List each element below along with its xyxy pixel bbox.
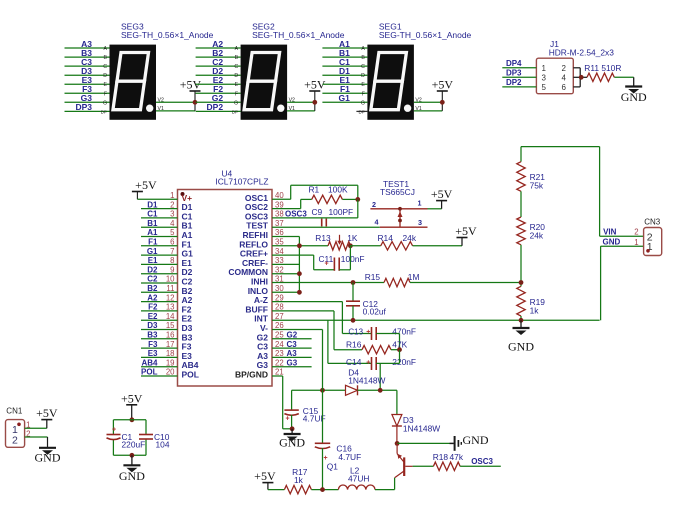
wire SEG3 pin C net C3 — [65, 57, 110, 70]
wire BUFF pin28 to R16 — [272, 311, 362, 350]
svg-text:OSC3: OSC3 — [285, 210, 307, 219]
svg-text:D: D — [361, 73, 365, 79]
svg-text:SEG-TH_0.56×1_Anode: SEG-TH_0.56×1_Anode — [252, 30, 345, 40]
diode D4 1N4148W — [346, 368, 386, 396]
svg-text:V2: V2 — [415, 97, 421, 103]
svg-text:ICL7107CPLZ: ICL7107CPLZ — [215, 177, 268, 187]
wire CN1 pin1 to +5V — [25, 420, 47, 429]
svg-text:R15: R15 — [365, 272, 381, 282]
svg-text:37: 37 — [275, 219, 284, 228]
resistor R11 510R — [584, 63, 621, 82]
svg-text:+5V: +5V — [36, 406, 58, 420]
wire U4 pin 24 net C3 — [272, 340, 312, 349]
svg-text:E3: E3 — [148, 349, 158, 358]
svg-text:36: 36 — [275, 228, 284, 237]
capacitor C9 100PF — [312, 207, 354, 227]
junction R19 bottom — [519, 318, 524, 323]
wire R19 bottom — [520, 316, 522, 320]
wire SEG2 pin D net D2 — [196, 66, 241, 79]
ground GND rotated at D3 — [450, 433, 489, 451]
wire C14 right — [376, 350, 399, 391]
resistor R17 1k — [284, 467, 311, 494]
wire SEG3 pin E net E3 — [65, 75, 110, 88]
wire COMMON pin32 — [272, 273, 299, 275]
svg-text:40: 40 — [275, 191, 284, 200]
wire U4 pin 20 net POL — [141, 368, 178, 377]
svg-text:+5V: +5V — [135, 178, 157, 192]
svg-text:GND: GND — [621, 90, 647, 104]
svg-text:TS665CJ: TS665CJ — [380, 187, 415, 197]
svg-text:G1: G1 — [147, 247, 158, 256]
capacitor C16 4.7UF — [315, 443, 361, 489]
svg-text:B: B — [104, 55, 108, 61]
junction bus COMMON — [297, 271, 302, 276]
ground GND at C1 — [119, 455, 145, 483]
capacitor C11 100nF — [319, 254, 365, 271]
svg-text:16: 16 — [166, 331, 175, 340]
svg-text:HDR-M-2.54_2x3: HDR-M-2.54_2x3 — [549, 47, 615, 57]
capacitor C15 4.7UF — [284, 390, 325, 429]
resistor R1 100K — [309, 185, 348, 204]
svg-text:E1: E1 — [148, 256, 158, 265]
svg-text:27: 27 — [275, 312, 284, 321]
ground GND at R19 — [508, 320, 534, 353]
svg-text:47UH: 47UH — [348, 474, 369, 484]
svg-text:V1: V1 — [158, 106, 164, 112]
junction bus INLO — [297, 290, 302, 295]
wire +5V to U4 pin1 — [137, 198, 177, 200]
wire SEG2 pin G net G2 — [196, 93, 241, 106]
svg-text:R16: R16 — [346, 340, 362, 350]
wire to D3 — [396, 390, 398, 414]
wire BP/GND pin21 down — [272, 376, 292, 429]
junction R1 right — [355, 197, 360, 202]
svg-text:+: + — [324, 455, 328, 462]
svg-text:28: 28 — [275, 303, 284, 312]
resistor R19 1k — [517, 286, 546, 316]
junction J1 pin4 — [579, 75, 584, 80]
svg-text:G: G — [234, 100, 238, 106]
svg-text:18: 18 — [166, 349, 175, 358]
wire U4 pin 6 net F1 — [141, 238, 178, 247]
svg-text:9: 9 — [170, 265, 174, 274]
svg-text:4: 4 — [562, 73, 567, 82]
wire U4 pin 7 net G1 — [141, 247, 178, 256]
svg-text:AB4: AB4 — [141, 358, 158, 367]
svg-text:C: C — [103, 64, 107, 70]
wire SEG2 pin C net C2 — [196, 57, 241, 70]
connector CN1 — [6, 407, 31, 448]
svg-text:C13: C13 — [348, 328, 363, 337]
svg-text:19: 19 — [166, 358, 175, 367]
wire INT pin27 long row — [272, 319, 600, 321]
svg-text:220uF: 220uF — [122, 440, 146, 450]
svg-text:B: B — [361, 55, 365, 61]
svg-text:DP3: DP3 — [75, 102, 92, 112]
svg-text:17: 17 — [166, 340, 175, 349]
svg-text:3: 3 — [418, 218, 422, 227]
svg-text:+: + — [366, 329, 370, 336]
svg-text:100nF: 100nF — [341, 254, 365, 264]
capacitor C14 220nF — [346, 357, 416, 370]
wire VIN row — [600, 228, 644, 237]
wire A-Z pin29 to C13 — [272, 302, 372, 334]
ground GND at C15 — [279, 429, 305, 450]
svg-text:D1: D1 — [147, 200, 158, 209]
power +5V at C1 — [121, 391, 143, 420]
svg-text:D3: D3 — [147, 321, 158, 330]
wire CREF+ pin34 to C11 — [272, 255, 334, 270]
svg-text:POL: POL — [182, 370, 199, 380]
U4 right pin names and numbers — [228, 191, 284, 380]
svg-text:26: 26 — [275, 321, 284, 330]
svg-text:GND: GND — [508, 340, 534, 354]
svg-text:4: 4 — [375, 218, 379, 227]
wire C13 right — [376, 334, 399, 350]
wire L2 to emitter — [375, 489, 395, 491]
wire C11 right to R13 junction — [339, 246, 350, 270]
wire OSC3 pin38 — [272, 199, 358, 218]
svg-text:C3: C3 — [287, 340, 298, 349]
svg-text:F2: F2 — [148, 303, 158, 312]
svg-text:4.7UF: 4.7UF — [338, 452, 361, 462]
transistor Q1 — [327, 443, 413, 477]
svg-text:+: + — [325, 261, 329, 268]
svg-text:A: A — [235, 46, 239, 52]
resistor R20 24k — [517, 217, 546, 245]
svg-text:1: 1 — [170, 191, 174, 200]
wire SEG2 pin B net B2 — [196, 48, 241, 61]
wire INLO pin30 — [272, 291, 299, 293]
junction at SEG2 V2 — [312, 100, 317, 105]
junction R16/C13/C14 — [397, 347, 402, 352]
svg-text:G: G — [103, 100, 107, 106]
svg-text:6: 6 — [170, 238, 174, 247]
svg-text:GND: GND — [603, 238, 621, 247]
wire GND row to CN3 — [601, 238, 644, 321]
wire J1 net DP4 — [502, 59, 536, 68]
wire R16 right — [391, 349, 400, 351]
svg-text:POL: POL — [141, 368, 158, 377]
wire U4 pin 2 net D1 — [141, 200, 178, 209]
svg-text:E2: E2 — [148, 312, 158, 321]
wire REFHI pin36 — [272, 236, 299, 238]
svg-text:24: 24 — [275, 340, 284, 349]
wire U4 pin 13 net F2 — [141, 303, 178, 312]
wire SEG1 V2/V1 to +5V — [414, 91, 442, 112]
wire SEG1 pin DP — [356, 109, 367, 114]
wire U4 pin 11 net B2 — [141, 284, 178, 293]
svg-text:5: 5 — [542, 83, 547, 92]
svg-text:7: 7 — [170, 247, 174, 256]
U4 left pin names and numbers — [166, 191, 199, 380]
wire D4 right — [358, 389, 397, 391]
svg-text:14: 14 — [166, 312, 175, 321]
svg-text:+5V: +5V — [455, 224, 477, 238]
wire U4 pin 4 net B1 — [141, 219, 178, 228]
svg-text:100PF: 100PF — [329, 207, 354, 217]
svg-text:R18: R18 — [433, 452, 449, 462]
svg-text:20: 20 — [166, 368, 175, 377]
wire INHI pin31 / R15 row — [272, 282, 384, 284]
svg-text:CN3: CN3 — [644, 218, 661, 227]
svg-text:A3: A3 — [287, 349, 298, 358]
svg-text:1k: 1k — [294, 475, 304, 485]
wire SEG2 V2/V1 to +5V — [287, 91, 315, 112]
svg-text:1: 1 — [542, 64, 547, 73]
svg-text:1k: 1k — [530, 306, 540, 316]
power +5V at SEG3 — [180, 78, 202, 92]
svg-text:G2: G2 — [287, 331, 298, 340]
svg-text:E: E — [361, 82, 365, 88]
svg-text:11: 11 — [166, 284, 174, 293]
switch TEST1 TS665CJ — [370, 179, 427, 227]
wire R21 to R20 — [520, 191, 522, 217]
svg-text:DP: DP — [359, 109, 365, 114]
svg-text:C2: C2 — [147, 275, 158, 284]
junction C15 bottom — [290, 426, 295, 431]
svg-text:F1: F1 — [148, 238, 158, 247]
junction C12 bottom — [351, 318, 356, 323]
svg-text:B2: B2 — [147, 284, 158, 293]
svg-text:24k: 24k — [403, 233, 417, 243]
svg-text:Q1: Q1 — [327, 462, 339, 472]
wire base to R18 — [413, 465, 434, 467]
svg-text:VIN: VIN — [603, 228, 617, 237]
svg-text:GND: GND — [463, 433, 489, 447]
svg-text:38: 38 — [275, 210, 284, 219]
wire U4 pin 17 net F3 — [141, 340, 178, 349]
wire C14 row from INT — [328, 320, 372, 363]
junction R20/R19/R15 — [519, 280, 524, 285]
svg-text:5: 5 — [170, 228, 175, 237]
svg-text:DP3: DP3 — [506, 68, 522, 77]
wire REFLO pin35 to R13 — [272, 245, 328, 247]
svg-text:DP2: DP2 — [506, 78, 522, 87]
svg-text:2: 2 — [634, 228, 638, 237]
svg-text:C9: C9 — [312, 207, 323, 217]
svg-text:A1: A1 — [147, 228, 158, 237]
svg-text:F: F — [362, 91, 365, 97]
junction bus REFLO — [297, 243, 302, 248]
wire emitter down — [394, 478, 396, 490]
svg-text:75k: 75k — [530, 181, 544, 191]
svg-text:470nF: 470nF — [392, 327, 416, 337]
wire U4 pin 25 net G2 — [272, 331, 312, 340]
7-segment display SEG2 — [241, 22, 345, 120]
svg-text:1: 1 — [418, 199, 422, 208]
wire TEST pin37 to TEST1 pin4 — [272, 226, 380, 228]
resistor R21 75k — [517, 162, 546, 192]
svg-text:2: 2 — [170, 200, 174, 209]
wire SEG1 pin G net G1 — [322, 93, 367, 106]
wire U4 pin 18 net E3 — [141, 349, 178, 358]
svg-text:24k: 24k — [530, 231, 544, 241]
wire U4 pin 8 net E1 — [141, 256, 178, 265]
wire SEG1 pin B net B1 — [322, 48, 367, 61]
wire U4 pin 19 net AB4 — [141, 358, 178, 367]
wire SEG3 pin D net D3 — [65, 66, 110, 79]
svg-text:+: + — [112, 427, 116, 434]
wire J1 net DP2 — [502, 78, 536, 87]
resistor R13 1K — [315, 233, 358, 250]
wire R11 to GND — [614, 76, 633, 78]
svg-text:R1: R1 — [309, 185, 320, 195]
svg-text:29: 29 — [275, 293, 284, 302]
wire SEG1 pin A net A1 — [322, 39, 367, 52]
wire SEG3 pin DP net DP3 — [65, 102, 110, 114]
svg-text:B: B — [235, 55, 239, 61]
svg-text:3: 3 — [542, 73, 547, 82]
wire R1 right to loop — [342, 198, 357, 200]
wire U4 pin 14 net E2 — [141, 312, 178, 321]
svg-text:OSC3: OSC3 — [471, 457, 493, 466]
svg-text:39: 39 — [275, 200, 284, 209]
svg-text:SEG-TH_0.56×1_Anode: SEG-TH_0.56×1_Anode — [379, 30, 472, 40]
svg-text:22: 22 — [275, 358, 284, 367]
wire collector node to GND — [397, 442, 449, 444]
svg-text:E: E — [104, 82, 108, 88]
svg-text:104: 104 — [156, 440, 170, 450]
resistor R16 47K — [346, 340, 408, 354]
svg-text:34: 34 — [275, 247, 284, 256]
svg-text:47k: 47k — [450, 452, 464, 462]
svg-text:G1: G1 — [339, 93, 351, 103]
svg-text:V1: V1 — [289, 106, 295, 112]
svg-text:GND: GND — [279, 436, 305, 450]
junction C12 top — [351, 280, 356, 285]
svg-text:0.02uf: 0.02uf — [363, 307, 387, 317]
junction C1 bottom — [130, 453, 135, 458]
svg-text:12: 12 — [166, 293, 175, 302]
svg-text:G: G — [361, 100, 365, 106]
junction at SEG1 V2 — [440, 100, 445, 105]
wire SEG2 pin F net F2 — [196, 84, 241, 97]
svg-text:G3: G3 — [287, 358, 298, 367]
wire CREF- pin33 — [272, 263, 299, 265]
wire R17 to C16 junction — [311, 489, 338, 491]
svg-text:23: 23 — [275, 349, 284, 358]
svg-text:BP/GND: BP/GND — [235, 370, 268, 380]
wire C1/C10 frame — [113, 420, 146, 456]
wire SEG2 pin A net A2 — [196, 39, 241, 52]
junction V- rail — [320, 388, 325, 393]
wire OSC1 pin40 loop — [272, 185, 358, 199]
svg-text:1: 1 — [634, 238, 638, 247]
wire SEG3 pin A net A3 — [65, 39, 110, 52]
wire R13 to R14 — [350, 245, 380, 247]
svg-text:35: 35 — [275, 238, 284, 247]
resistor R14 24k — [378, 233, 417, 250]
wire U4 pin 5 net A1 — [141, 228, 178, 237]
svg-text:C: C — [234, 64, 238, 70]
svg-text:R11 510R: R11 510R — [584, 63, 621, 73]
wire SEG1 pin D net D1 — [322, 66, 367, 79]
svg-text:32: 32 — [275, 265, 284, 274]
inductor L2 47UH — [338, 466, 375, 490]
svg-text:C1: C1 — [147, 210, 158, 219]
svg-text:220nF: 220nF — [392, 357, 416, 367]
svg-text:D2: D2 — [147, 265, 158, 274]
svg-text:2: 2 — [562, 64, 567, 73]
wire J1 pins 2,4,6 join — [573, 68, 587, 87]
junction at SEG3 V2 — [193, 100, 198, 105]
junction D4 right — [378, 388, 383, 393]
wire U4 pin 3 net C1 — [141, 210, 178, 219]
svg-text:D: D — [103, 73, 107, 79]
diode D3 1N4148W — [392, 415, 440, 434]
svg-text:GND: GND — [119, 469, 145, 483]
svg-text:25: 25 — [275, 331, 284, 340]
capacitor C1 220uF — [107, 427, 146, 450]
connector CN3 — [634, 218, 661, 256]
svg-text:GND: GND — [35, 451, 61, 465]
svg-text:SEG-TH_0.56×1_Anode: SEG-TH_0.56×1_Anode — [121, 30, 214, 40]
op-amp U1 : IC U4 ICL7107CPLZ body — [178, 169, 273, 387]
7-segment display SEG1 — [367, 22, 471, 120]
connector J1 HDR-M-2.54_2x3 — [536, 39, 614, 94]
svg-text:15: 15 — [166, 321, 175, 330]
wire J1 net DP3 — [502, 68, 536, 77]
junction R13 right — [348, 243, 353, 248]
wire SEG2 pin DP net DP2 — [196, 102, 241, 114]
svg-text:+: + — [286, 416, 290, 423]
ground GND at R11 — [621, 77, 647, 104]
svg-text:8: 8 — [170, 256, 174, 265]
svg-text:C14: C14 — [346, 357, 362, 367]
svg-text:6: 6 — [562, 83, 567, 92]
svg-text:V2: V2 — [289, 97, 295, 103]
svg-text:2: 2 — [372, 200, 376, 209]
svg-text:2: 2 — [12, 435, 18, 447]
svg-text:A: A — [104, 46, 108, 52]
capacitor C10 104 — [139, 432, 170, 450]
svg-text:13: 13 — [166, 303, 175, 312]
power +5V at R17 — [254, 469, 276, 490]
wire TEST1 pin1 to +5V — [428, 201, 442, 209]
wire U4 pin 15 net D3 — [141, 321, 178, 330]
svg-text:1N4148W: 1N4148W — [348, 376, 385, 386]
wire SEG3 V2/V1 to +5V — [156, 91, 195, 112]
wire U4 pin 12 net A2 — [141, 293, 178, 302]
svg-text:D: D — [234, 73, 238, 79]
wire OSC2 pin39 to R1 — [272, 199, 312, 208]
svg-text:R14: R14 — [378, 233, 394, 243]
power +5V at SEG1 — [432, 78, 454, 92]
capacitor C13 470nF — [348, 327, 416, 341]
resistor R18 47k — [433, 452, 464, 471]
wire V- pin26 down to rail and C16 — [272, 330, 323, 444]
power +5V at U4 pin1 — [132, 178, 157, 199]
junction C1 top — [130, 417, 135, 422]
svg-text:B1: B1 — [147, 219, 158, 228]
svg-text:B3: B3 — [147, 331, 158, 340]
svg-text:C: C — [361, 64, 365, 70]
capacitor C12 0.02uf — [346, 283, 387, 321]
svg-text:10: 10 — [166, 275, 175, 284]
wire SEG1 pin E net E1 — [322, 75, 367, 88]
svg-text:DP4: DP4 — [506, 59, 522, 68]
svg-text:E: E — [235, 82, 239, 88]
svg-text:DP: DP — [101, 109, 107, 114]
svg-text:F: F — [235, 91, 238, 97]
svg-text:3: 3 — [170, 210, 174, 219]
svg-text:+5V: +5V — [121, 391, 143, 405]
wire U4 pin 16 net B3 — [141, 331, 178, 340]
wire R14 to +5V — [413, 238, 462, 246]
svg-text:DP2: DP2 — [207, 102, 224, 112]
svg-text:+5V: +5V — [254, 469, 276, 483]
